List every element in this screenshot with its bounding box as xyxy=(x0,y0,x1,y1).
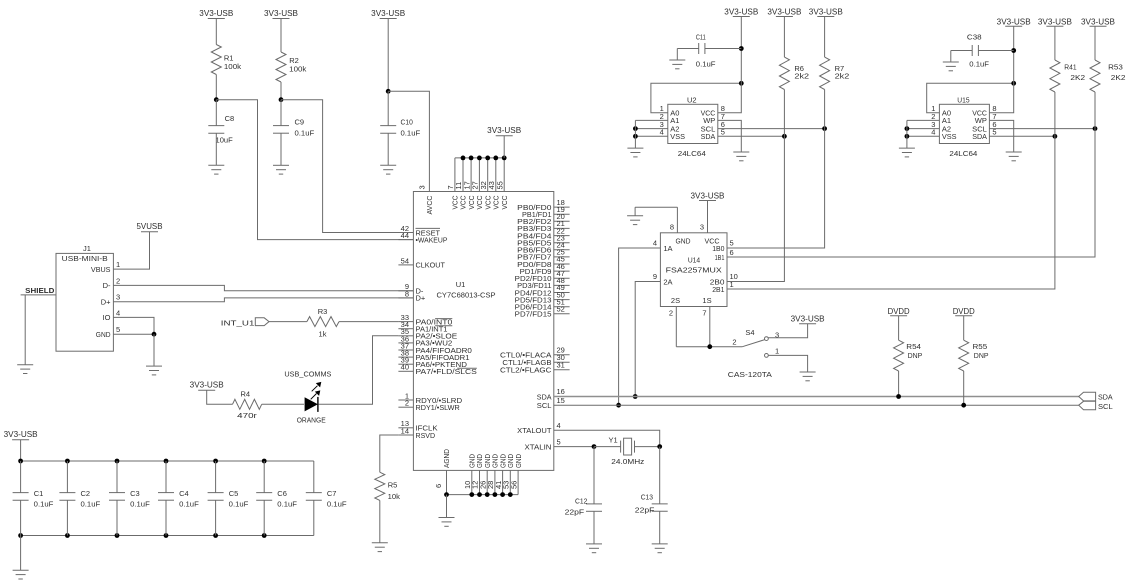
svg-text:0.1uF: 0.1uF xyxy=(229,499,249,508)
pin 5 GND xyxy=(96,325,120,339)
svg-text:C4: C4 xyxy=(179,489,189,498)
svg-text:1: 1 xyxy=(730,280,734,289)
svg-text:3V3-USB: 3V3-USB xyxy=(809,8,843,17)
capacitor C10 xyxy=(380,91,420,165)
svg-text:C10: C10 xyxy=(401,118,413,127)
wire xyxy=(1054,26,1056,60)
svg-text:5VUSB: 5VUSB xyxy=(137,222,163,231)
pin 13 IFCLK xyxy=(398,419,437,432)
led D (orange) xyxy=(297,382,326,425)
ground U2 addr xyxy=(627,148,643,157)
node C12/Y1 xyxy=(592,444,597,449)
svg-text:AGND: AGND xyxy=(442,448,451,468)
wire SDA bus xyxy=(554,396,1079,398)
svg-text:4: 4 xyxy=(557,421,561,430)
svg-text:56: 56 xyxy=(509,481,518,489)
svg-text:0.1uF: 0.1uF xyxy=(179,499,199,508)
svg-text:52: 52 xyxy=(557,305,565,314)
switch S4 label xyxy=(745,328,754,337)
power DVDD (R55) xyxy=(953,307,975,316)
svg-text:40: 40 xyxy=(401,363,409,372)
wire VCC bus xyxy=(455,157,504,159)
node C10/AVCC xyxy=(386,89,391,94)
wire SCL net to U14 1B0 xyxy=(727,129,825,248)
svg-text:GND: GND xyxy=(676,236,692,245)
svg-text:2S: 2S xyxy=(671,296,680,305)
svg-text:10uF: 10uF xyxy=(216,135,234,144)
svg-text:4: 4 xyxy=(653,239,657,248)
wire XTALOUT xyxy=(554,430,660,446)
capacitor C11 xyxy=(677,33,741,69)
wire U2 A1 xyxy=(635,119,667,121)
pin 5 XTALIN xyxy=(525,437,561,451)
node SCL/R7 xyxy=(822,126,827,131)
wire xyxy=(379,500,381,542)
capacitor C5 xyxy=(208,461,249,536)
node R54/SDA xyxy=(896,394,901,399)
node J1 gnd xyxy=(152,332,157,337)
svg-text:8: 8 xyxy=(405,289,409,298)
svg-text:IO: IO xyxy=(103,313,111,322)
svg-text:CLKOUT: CLKOUT xyxy=(416,261,446,270)
svg-text:0.1uF: 0.1uF xyxy=(81,499,101,508)
svg-text:VBUS: VBUS xyxy=(91,265,111,274)
svg-text:4: 4 xyxy=(116,308,120,317)
svg-text:DNP: DNP xyxy=(908,351,923,360)
power 3V3-USB (R4) xyxy=(190,381,224,391)
svg-text:2A: 2A xyxy=(663,277,672,286)
wire AGND to ground xyxy=(446,495,448,518)
pin 4 VSS xyxy=(660,128,685,141)
pin 3 A2 xyxy=(931,120,951,133)
svg-text:SHIELD: SHIELD xyxy=(25,286,55,295)
wire xyxy=(783,17,785,58)
ground C9 xyxy=(273,165,289,174)
flag SDA xyxy=(1079,392,1113,401)
ic U2 body xyxy=(668,95,718,158)
ic U1 body xyxy=(413,192,553,471)
svg-text:100k: 100k xyxy=(289,65,306,74)
capacitor C1 xyxy=(13,461,54,536)
pin 10 2B0 xyxy=(710,272,738,286)
node R55/SCL xyxy=(961,403,966,408)
pin 14 RSVD xyxy=(398,426,435,439)
pin 30 CTL1/•FLAGB xyxy=(502,353,569,367)
wire U15 WP to ground xyxy=(989,120,1013,152)
wire U2 SDA xyxy=(718,135,785,137)
wire SDA net to U14 2B0 xyxy=(727,136,784,281)
pin 9 D- xyxy=(398,282,424,295)
svg-text:FSA2257MUX: FSA2257MUX xyxy=(666,266,722,275)
node SDA2/R41 xyxy=(1053,134,1058,139)
wire xyxy=(635,446,660,448)
wire LED to PA2 xyxy=(319,336,399,405)
svg-text:6: 6 xyxy=(434,484,443,488)
ground C8 xyxy=(208,165,224,174)
power 3V3-USB (R53) xyxy=(1081,17,1115,26)
pin 44 *WAKEUP xyxy=(398,231,447,244)
pin 6 1B1 xyxy=(715,248,734,262)
svg-text:2k2: 2k2 xyxy=(794,72,809,81)
pin 5 SDA xyxy=(701,128,725,141)
wire R54 to SDA xyxy=(898,371,900,397)
wire U15 SCL xyxy=(989,128,1095,130)
wire U15 A0 tie high xyxy=(927,83,1014,112)
pin 42 RESET xyxy=(398,224,440,237)
svg-text:0.1uF: 0.1uF xyxy=(969,59,989,68)
wire xyxy=(963,316,965,341)
pin 9 2A xyxy=(653,272,673,286)
wire 1A to SCL xyxy=(619,248,661,405)
svg-text:C38: C38 xyxy=(967,33,982,42)
node xyxy=(633,134,638,139)
pin 1 A0 xyxy=(660,104,680,117)
svg-text:SDA: SDA xyxy=(1098,393,1113,402)
svg-text:3V3-USB: 3V3-USB xyxy=(4,430,38,439)
wire xyxy=(215,75,217,100)
pins GND 10/12/26/28/41/53/56 xyxy=(463,454,523,495)
wire U2 SCL xyxy=(718,128,825,130)
svg-text:RDY1/•SLWR: RDY1/•SLWR xyxy=(416,403,461,412)
wire U2 WP to ground xyxy=(718,120,742,152)
wire cap bank top rail xyxy=(21,460,314,462)
svg-text:D-: D- xyxy=(103,281,111,290)
ground C10 xyxy=(380,165,396,174)
wire C9 junction to RESET xyxy=(281,100,413,233)
wire U15 VCC xyxy=(989,51,1013,113)
node SHIELD xyxy=(25,286,55,295)
wire XTALIN xyxy=(554,446,594,448)
ground U15 WP xyxy=(1006,152,1022,161)
ground SHIELD xyxy=(17,365,33,374)
svg-text:16: 16 xyxy=(557,387,565,396)
capacitor C12 xyxy=(565,447,602,544)
svg-text:0.1uF: 0.1uF xyxy=(34,499,54,508)
power 3V3-USB (R41) xyxy=(1038,17,1072,26)
svg-text:R53: R53 xyxy=(1108,62,1123,71)
ground U15 addr xyxy=(899,148,915,157)
svg-text:3V3-USB: 3V3-USB xyxy=(190,381,224,390)
svg-text:7: 7 xyxy=(702,308,706,317)
pin 1 RDY0/•SLRD xyxy=(398,391,462,404)
svg-text:14: 14 xyxy=(401,426,409,435)
svg-text:D+: D+ xyxy=(416,294,426,303)
svg-text:GND: GND xyxy=(514,454,523,468)
svg-text:R54: R54 xyxy=(906,342,921,351)
power 3V3-USB (R2) xyxy=(264,9,298,19)
node 1A/SCL xyxy=(616,403,621,408)
svg-text:54: 54 xyxy=(401,256,409,265)
svg-text:8: 8 xyxy=(670,222,674,231)
wire GND8 xyxy=(635,207,677,216)
pin 5 1B0 xyxy=(712,239,733,253)
svg-text:PD7/FD15: PD7/FD15 xyxy=(515,310,552,319)
svg-text:U14: U14 xyxy=(688,256,700,265)
pin 35 PA2/•SLOE xyxy=(398,327,457,340)
pin 1 2B1 xyxy=(712,280,733,294)
wire AVCC feed xyxy=(388,91,429,191)
svg-text:2: 2 xyxy=(405,399,409,408)
svg-text:C7: C7 xyxy=(327,489,337,498)
power 3V3-USB (C11) xyxy=(724,8,758,49)
pin 2 D- xyxy=(103,276,121,290)
resistor R53 xyxy=(1090,60,1126,92)
pin 38 PA5/FIFOADR1 xyxy=(398,349,469,362)
resistor R54 xyxy=(894,340,923,371)
wire addr to ground xyxy=(634,120,636,148)
node 2A/SDA xyxy=(633,394,638,399)
nodes GND bus xyxy=(444,492,513,497)
svg-text:SCL: SCL xyxy=(537,401,552,410)
wire U2 VSS xyxy=(635,135,667,137)
wire to ground xyxy=(20,536,22,571)
svg-text:100k: 100k xyxy=(224,62,241,71)
svg-text:2K2: 2K2 xyxy=(1111,73,1126,82)
pin 37 PA4/FIFOADR0 xyxy=(398,341,472,354)
resistor R1 xyxy=(211,45,241,75)
svg-text:U1: U1 xyxy=(456,280,466,289)
wire 2A to SDA xyxy=(635,282,660,397)
pin 16 SDA xyxy=(537,387,565,401)
svg-text:DNP: DNP xyxy=(974,351,989,360)
capacitor C6 xyxy=(256,461,297,536)
svg-text:R5: R5 xyxy=(388,480,398,489)
svg-text:C12: C12 xyxy=(575,496,587,505)
wire U2 A2 xyxy=(635,128,667,130)
svg-text:3V3-USB: 3V3-USB xyxy=(767,8,801,17)
switch S4 throw 1 xyxy=(765,347,808,372)
resistor R3 xyxy=(307,307,339,339)
node xyxy=(739,46,744,51)
svg-text:3V3-USB: 3V3-USB xyxy=(724,8,758,17)
pin 8 VCC xyxy=(701,104,725,117)
svg-text:R55: R55 xyxy=(973,342,988,351)
svg-text:GND: GND xyxy=(96,330,111,339)
svg-text:10k: 10k xyxy=(388,492,401,501)
pin 15 SCL xyxy=(537,396,565,410)
wire U15 SDA xyxy=(989,135,1055,137)
capacitor C3 xyxy=(109,461,150,536)
svg-text:3V3-USB: 3V3-USB xyxy=(791,315,825,324)
node xyxy=(905,134,910,139)
power 3V3-USB (R1) xyxy=(199,9,233,19)
switch S4 part number xyxy=(728,370,772,379)
wire addr to ground xyxy=(906,120,908,148)
svg-text:22pF: 22pF xyxy=(635,505,655,514)
wire SDA2 net to U14 2B1 xyxy=(727,136,1055,289)
wire RSVD to R5 xyxy=(380,435,399,472)
capacitor C9 xyxy=(273,100,315,166)
pin 3 D+ xyxy=(101,293,120,307)
pin 2 2S xyxy=(669,296,680,347)
power 5VUSB xyxy=(137,222,163,232)
wire R55 to SCL xyxy=(963,371,965,405)
wire U15 A1 xyxy=(907,119,940,121)
svg-text:22pF: 22pF xyxy=(565,507,585,516)
ground U2 WP xyxy=(733,152,749,161)
svg-text:C11: C11 xyxy=(696,33,706,42)
node SCL2/R53 xyxy=(1093,126,1098,131)
wire R7 to SCL node xyxy=(824,90,826,129)
resistor R5 xyxy=(375,472,400,501)
pin 39 PA6/•PKTEND xyxy=(398,356,467,369)
svg-text:0.1uF: 0.1uF xyxy=(130,499,150,508)
svg-text:3V3-USB: 3V3-USB xyxy=(487,126,521,135)
node C13/Y1 xyxy=(657,444,662,449)
svg-text:31: 31 xyxy=(557,360,565,369)
wire xyxy=(207,390,233,404)
wire xyxy=(824,17,826,58)
svg-text:470r: 470r xyxy=(237,411,257,420)
wire xyxy=(280,82,282,100)
ground R5 xyxy=(372,543,388,552)
resistor R7 xyxy=(820,57,850,89)
pin 8 D+ xyxy=(398,289,426,302)
svg-text:1A: 1A xyxy=(663,244,672,253)
resistor R4 xyxy=(233,389,262,420)
wire SCL bus xyxy=(554,404,1079,406)
svg-text:3: 3 xyxy=(116,293,120,302)
svg-text:0.1uF: 0.1uF xyxy=(696,59,716,68)
wire R41 to SDA2 xyxy=(1054,92,1056,136)
svg-text:U2: U2 xyxy=(687,95,697,104)
pin 5 SDA xyxy=(972,128,996,141)
power 3V3-USB (cap bank) xyxy=(4,430,38,461)
wire IO to GND xyxy=(113,317,154,334)
pin 4 XTALOUT xyxy=(517,421,560,435)
pin 54 CLKOUT xyxy=(398,256,445,269)
svg-text:C2: C2 xyxy=(81,489,91,498)
svg-text:C6: C6 xyxy=(277,489,287,498)
wire U2 A0 tie high xyxy=(651,83,741,112)
svg-text:3V3-USB: 3V3-USB xyxy=(264,9,298,18)
pin 7 WP xyxy=(975,112,997,125)
pins PB0-PD7 data bus stubs xyxy=(515,198,570,319)
svg-text:U15: U15 xyxy=(957,95,969,104)
svg-text:R4: R4 xyxy=(241,389,251,398)
pin 8 VCC xyxy=(972,104,996,117)
power DVDD (R54) xyxy=(888,307,910,316)
pin 6 AGND xyxy=(434,448,451,494)
ground U1 xyxy=(439,518,455,527)
flag SCL xyxy=(1079,401,1113,411)
svg-text:55: 55 xyxy=(495,181,504,189)
switch S4 throw 3 xyxy=(765,324,808,341)
svg-text:24.0MHz: 24.0MHz xyxy=(611,457,644,466)
svg-text:3V3-USB: 3V3-USB xyxy=(691,191,725,200)
svg-text:3V3-USB: 3V3-USB xyxy=(997,17,1031,26)
nodes top rail xyxy=(18,459,266,464)
ground J1 xyxy=(146,366,162,375)
node R2/C9 xyxy=(279,97,284,102)
node xyxy=(905,126,910,131)
wire SHIELD xyxy=(21,295,56,365)
power 3V3-USB (U1 VCC) xyxy=(487,126,521,158)
wire VBUS xyxy=(113,232,149,269)
svg-text:R3: R3 xyxy=(318,307,328,316)
pin 34 PA1/INT1 xyxy=(398,320,452,333)
ground cap bank xyxy=(13,570,29,579)
power 3V3-USB (S4) xyxy=(791,315,825,324)
wire U15 A2 xyxy=(907,128,940,130)
wire R3 to PA0 xyxy=(339,321,398,323)
pin 33 PA0/INT0 xyxy=(398,313,452,326)
svg-text:VSS: VSS xyxy=(942,132,957,141)
capacitor C38 xyxy=(951,33,1014,69)
svg-text:3V3-USB: 3V3-USB xyxy=(199,9,233,18)
node R1/C8 xyxy=(214,97,219,102)
ic U14 body xyxy=(660,233,727,307)
wire R4 to LED xyxy=(262,403,304,405)
nodes VCC bus xyxy=(461,156,507,161)
svg-text:XTALIN: XTALIN xyxy=(525,442,552,451)
svg-text:24LC64: 24LC64 xyxy=(678,149,706,158)
svg-text:1k: 1k xyxy=(319,330,327,339)
wire U2 VCC xyxy=(718,49,742,113)
svg-text:0.1uF: 0.1uF xyxy=(277,499,297,508)
pin 2 RDY1/•SLWR xyxy=(398,399,460,412)
svg-text:C13: C13 xyxy=(641,493,653,502)
svg-text:J1: J1 xyxy=(83,244,91,253)
wire xyxy=(1094,26,1096,60)
wire xyxy=(269,321,307,323)
wire select xyxy=(676,346,742,348)
svg-text:C3: C3 xyxy=(130,489,140,498)
pin 31 CTL2/•FLAGC xyxy=(500,360,570,374)
svg-text:SCL: SCL xyxy=(1098,402,1113,411)
svg-text:C9: C9 xyxy=(295,118,305,127)
led USB_COMMS label xyxy=(284,369,331,378)
pin 2 A1 xyxy=(931,112,951,125)
svg-text:Y1: Y1 xyxy=(609,435,618,444)
svg-text:1: 1 xyxy=(775,347,779,356)
pin 8 GND xyxy=(670,207,691,245)
wire SCL2 net to U14 1B1 xyxy=(727,129,1095,257)
svg-text:RSVD: RSVD xyxy=(416,431,436,440)
svg-text:1S: 1S xyxy=(702,296,711,305)
flag INT_U1 xyxy=(221,318,269,328)
pin 1 A0 xyxy=(931,104,951,117)
wire cap bank bottom rail xyxy=(21,535,314,537)
wire xyxy=(898,316,900,341)
svg-text:24LC64: 24LC64 xyxy=(949,149,977,158)
svg-text:C1: C1 xyxy=(34,489,44,498)
svg-text:0.1uF: 0.1uF xyxy=(401,129,421,138)
power 3V3-USB (U14) xyxy=(691,191,725,200)
svg-text:5: 5 xyxy=(116,325,120,334)
wire GND pin xyxy=(113,333,154,335)
ground C13 xyxy=(652,544,668,553)
pin 29 CTL0/•FLACA xyxy=(500,345,570,359)
svg-text:5: 5 xyxy=(557,437,561,446)
svg-text:XTALOUT: XTALOUT xyxy=(517,426,552,435)
svg-text:•WAKEUP: •WAKEUP xyxy=(416,235,448,244)
pin 3 AVCC xyxy=(418,185,435,214)
pin 6 SCL xyxy=(972,120,996,133)
svg-text:AVCC: AVCC xyxy=(425,195,434,215)
svg-text:S4: S4 xyxy=(745,328,754,337)
svg-text:3V3-USB: 3V3-USB xyxy=(371,9,405,18)
wire xyxy=(215,19,217,45)
pin 3 VCC xyxy=(700,201,720,246)
wire D- to U1 (jog) xyxy=(113,285,413,290)
wire D+ to U1 (jog) xyxy=(113,298,413,302)
svg-text:2: 2 xyxy=(116,276,120,285)
nodes bottom rail xyxy=(18,533,266,538)
pin 40 PA7/•FLD/SLCS xyxy=(398,363,476,376)
capacitor C2 xyxy=(59,461,100,536)
ground C12 xyxy=(586,544,602,553)
